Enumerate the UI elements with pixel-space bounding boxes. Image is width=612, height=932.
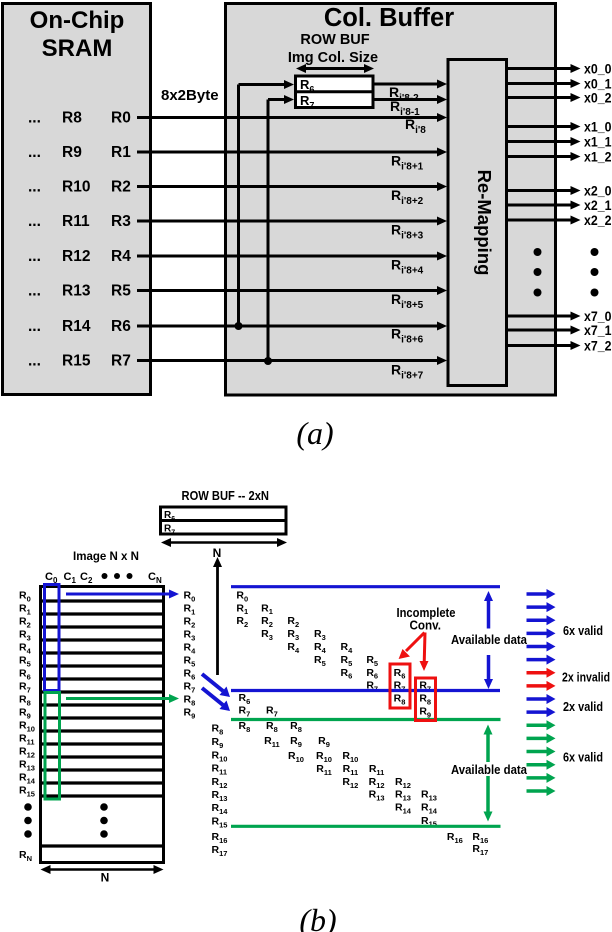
svg-text:R0: R0 [184,590,196,604]
caption (b) [299,902,336,932]
output data arrow 14 [527,760,556,770]
wire register output row2 [373,95,447,104]
SRAM row R2 labels [28,179,131,196]
net label Ri'8+2 [391,187,424,207]
buffer sequence label R8 [184,694,196,708]
SRAM row R7 labels [28,353,131,370]
caption (a) [296,415,333,451]
svg-text:R8: R8 [266,720,278,734]
wire R4 from SRAM to Re-Mapping [137,252,447,261]
svg-text:Re-Mapping: Re-Mapping [474,170,495,276]
label N under row buffer [213,546,222,560]
grid row label R12 [19,746,35,760]
svg-text:R2: R2 [19,616,31,630]
register box R6/R7 row buffer [296,76,374,111]
green arrow row R8 to label [66,694,179,703]
svg-text:x1_2: x1_2 [584,149,612,165]
label Image N x N [73,549,139,563]
output wire x2_1 [507,197,612,213]
red arrow to box 2 [420,633,429,672]
wire R6 from SRAM to Re-Mapping [137,322,447,331]
blue diagonal arrow R7 [202,688,230,711]
grid ellipsis dots left [24,803,32,838]
SRAM row R5 labels [28,283,131,300]
blue boundary line bottom [231,689,500,692]
wire R7 from SRAM to Re-Mapping [137,356,447,365]
svg-text:R2: R2 [184,616,196,630]
image grid N x N [41,587,164,863]
svg-text:x2_1: x2_1 [584,197,612,213]
svg-text:R10: R10 [288,750,304,764]
grid row label R9 [19,707,31,721]
svg-text:R5: R5 [19,655,31,669]
svg-text:R6: R6 [19,668,31,682]
wire R1 from SRAM to Re-Mapping [137,148,447,157]
output data arrow 9 [527,694,556,704]
output data arrow 3 [527,615,556,625]
output wire x7_1 [507,322,612,338]
svg-text:R7: R7 [266,705,278,719]
double arrow N width of row buffer [161,538,287,547]
svg-text:R2: R2 [287,615,299,629]
header ellipsis dots [102,573,133,579]
output data arrow 6 [527,655,556,665]
second sequence label R17 [212,844,228,858]
junction dot R7 [264,357,272,365]
svg-text:R14: R14 [395,802,412,816]
svg-text:R14: R14 [421,802,438,816]
blue double arrow available data [484,591,493,689]
svg-text:R14: R14 [62,318,91,335]
label 6x valid upper [563,623,603,638]
upper convolution staircase labels [236,589,431,719]
svg-text:6x valid: 6x valid [563,750,603,765]
svg-text:R1: R1 [19,603,31,617]
buffer sequence label R5 [184,655,196,669]
svg-text:...: ... [28,283,41,300]
svg-text:R8: R8 [62,110,82,127]
svg-text:R17: R17 [212,844,228,858]
svg-text:On-Chip: On-Chip [30,7,125,34]
row buffer box 2xN [161,507,287,536]
output data arrow 8 [527,681,556,691]
buffer sequence label R1 [184,603,196,617]
net label Ri'8-1 [390,98,420,118]
output wire x7_0 [507,308,612,324]
svg-text:(b): (b) [299,902,336,932]
label N under grid [101,871,110,885]
svg-text:R11: R11 [19,733,35,747]
output wire x2_2 [507,212,612,228]
svg-text:R8: R8 [19,694,31,708]
svg-text:...: ... [28,110,41,127]
buffer sequence label R0 [184,590,196,604]
svg-text:R13: R13 [395,789,411,803]
net label Ri'8 [405,116,426,136]
SRAM row R0 labels [28,110,131,127]
svg-text:R6: R6 [341,667,353,681]
output data arrow 13 [527,747,556,757]
black arrow up to row buffer [213,557,222,675]
second sequence label R16 [212,831,228,845]
svg-text:R12: R12 [212,776,228,790]
blue diagonal arrow R6 [202,674,230,697]
net label Ri'8+5 [391,291,424,311]
label ROW BUF--2xN [182,489,270,503]
svg-text:R11: R11 [62,213,90,230]
svg-text:R3: R3 [287,628,299,642]
buffer sequence label R2 [184,616,196,630]
grid row label R2 [19,616,31,630]
output data arrow 4 [527,628,556,638]
grid row label R0 [19,590,31,604]
svg-text:R10: R10 [342,750,358,764]
svg-text:R1: R1 [184,603,196,617]
box Re-Mapping [448,60,507,386]
svg-text:C1: C1 [64,571,77,585]
SRAM row R1 labels [28,144,131,161]
svg-text:N: N [101,871,110,885]
grid row label R7 [19,681,31,695]
output wire x0_1 [507,76,612,92]
net label Ri'8+1 [391,153,424,173]
svg-text:R13: R13 [421,789,437,803]
svg-text:Img Col. Size: Img Col. Size [288,50,378,66]
svg-text:R5: R5 [184,655,196,669]
svg-text:x0_0: x0_0 [584,61,612,77]
net label Ri'8+3 [391,222,424,242]
svg-text:R1: R1 [111,144,131,161]
svg-text:CN: CN [148,571,162,585]
svg-text:R3: R3 [19,629,31,643]
svg-text:R16: R16 [212,831,228,845]
grid row label R14 [19,772,36,786]
output data arrow 12 [527,733,556,743]
svg-text:x0_2: x0_2 [584,90,612,106]
svg-text:R7: R7 [239,705,251,719]
output data arrow 15 [527,773,556,783]
svg-text:R11: R11 [264,735,280,749]
svg-text:R4: R4 [19,642,32,656]
green double arrow available data [484,725,493,822]
svg-text:R10: R10 [62,179,90,196]
svg-text:R9: R9 [19,707,31,721]
svg-text:ROW BUF: ROW BUF [300,32,369,48]
output wire x7_2 [507,338,612,354]
svg-text:R5: R5 [314,654,326,668]
svg-text:R9: R9 [419,706,431,720]
blue column highlight C0 rows R0-R7 [45,585,60,691]
output data arrow 11 [527,720,556,730]
wire R7 branch up to register [268,95,294,361]
net label Ri'8+4 [391,257,424,277]
svg-text:R2: R2 [261,615,273,629]
svg-text:R10: R10 [212,750,228,764]
SRAM row R6 labels [28,318,131,335]
svg-text:R14: R14 [19,772,36,786]
green boundary line top [231,718,501,721]
label Available data lower [451,763,528,777]
grid row label R6 [19,668,31,682]
lower convolution staircase labels [239,692,489,857]
svg-text:...: ... [28,318,41,335]
svg-text:R9: R9 [318,735,330,749]
svg-text:C0: C0 [45,571,58,585]
label Available data upper [451,633,528,647]
svg-text:R14: R14 [212,802,229,816]
svg-text:R9: R9 [184,707,196,721]
svg-text:R10: R10 [19,720,35,734]
svg-text:R8: R8 [394,693,406,707]
column headers C0 C1 C2 [45,571,93,585]
svg-text:R4: R4 [111,248,131,265]
second sequence label R13 [212,789,228,803]
svg-text:R15: R15 [19,785,35,799]
svg-text:...: ... [28,179,41,196]
svg-text:R13: R13 [19,759,35,773]
svg-text:R16: R16 [447,831,463,845]
svg-text:R1: R1 [236,602,248,616]
svg-text:R17: R17 [472,843,488,857]
label Img Col. Size [288,50,378,66]
grid row label R8 [19,694,31,708]
svg-text:N: N [213,546,222,560]
svg-text:R4: R4 [314,641,327,655]
svg-text:R8: R8 [184,694,196,708]
grid row label RN [19,849,32,863]
svg-text:R15: R15 [212,816,228,830]
grid row label R11 [19,733,35,747]
ellipsis dots outputs inner [534,248,542,297]
green boundary line bottom [231,825,501,828]
wire R0 from SRAM to Re-Mapping [137,113,447,122]
svg-text:8x2Byte: 8x2Byte [161,87,219,104]
svg-text:R4: R4 [287,641,300,655]
svg-text:SRAM: SRAM [42,35,113,62]
svg-text:R12: R12 [342,776,358,790]
box On-Chip SRAM [3,4,151,395]
svg-text:2x invalid: 2x invalid [562,670,610,685]
wire R5 from SRAM to Re-Mapping [137,286,447,295]
svg-text:R15: R15 [62,353,91,370]
output data arrow 10 [527,707,556,717]
svg-text:ROW BUF -- 2xN: ROW BUF -- 2xN [182,489,270,503]
net label Ri'8+6 [391,326,424,346]
svg-text:R4: R4 [341,641,354,655]
junction dot R6 [235,322,243,330]
svg-text:Image N x N: Image N x N [73,549,139,563]
output data arrow 2 [527,602,556,612]
output wire x0_2 [507,90,612,106]
svg-text:R5: R5 [366,654,378,668]
svg-text:x2_2: x2_2 [584,212,612,228]
column header CN [148,571,162,585]
double arrow N width of grid [41,865,164,874]
svg-text:R11: R11 [369,763,385,777]
second sequence label R8 [212,723,224,737]
svg-text:R7: R7 [19,681,31,695]
svg-text:2x valid: 2x valid [563,699,603,714]
svg-text:R0: R0 [19,590,31,604]
grid row label R5 [19,655,31,669]
double arrow Img Col. Size width [296,64,374,73]
svg-text:R0: R0 [111,110,131,127]
grid row label R3 [19,629,31,643]
svg-text:Available data: Available data [451,763,528,777]
red box incomplete conv 1 [390,664,410,708]
svg-text:R11: R11 [212,763,228,777]
svg-text:x7_1: x7_1 [584,322,612,338]
svg-text:R10: R10 [316,750,332,764]
box Col. Buffer [226,4,556,396]
svg-text:...: ... [28,248,41,265]
buffer sequence label R4 [184,642,197,656]
svg-text:R3: R3 [111,213,131,230]
svg-text:R8: R8 [239,720,251,734]
svg-text:R3: R3 [314,628,326,642]
output wire x0_0 [507,61,612,77]
net label Ri'8-2 [389,84,419,104]
svg-text:x7_2: x7_2 [584,338,612,354]
svg-text:R2: R2 [236,615,248,629]
svg-text:...: ... [28,144,41,161]
svg-text:6x valid: 6x valid [563,623,603,638]
buffer sequence label R9 [184,707,196,721]
ellipsis dots outputs outer [591,248,599,297]
blue boundary line top [231,585,500,588]
grid row label R1 [19,603,31,617]
svg-text:R9: R9 [212,736,224,750]
svg-text:R6: R6 [111,318,131,335]
svg-text:Conv.: Conv. [410,619,442,633]
buffer sequence label R3 [184,629,196,643]
svg-text:R12: R12 [62,248,90,265]
grid row label R15 [19,785,35,799]
output wire x1_1 [507,134,612,150]
label Incomplete Conv. [397,606,456,633]
svg-text:R11: R11 [316,763,332,777]
label 6x valid lower [563,750,603,765]
grid row label R4 [19,642,32,656]
svg-text:R5: R5 [111,283,131,300]
second sequence label R9 [212,736,224,750]
svg-text:RN: RN [19,849,32,863]
svg-text:R8: R8 [212,723,224,737]
wire R3 from SRAM to Re-Mapping [137,217,447,226]
svg-text:R8: R8 [419,693,431,707]
svg-text:R3: R3 [261,628,273,642]
svg-text:R2: R2 [111,179,131,196]
wire R6 branch up to register [239,80,295,326]
svg-text:R6: R6 [366,667,378,681]
label 2x valid [563,699,603,714]
buffer sequence label R6 [184,668,196,682]
svg-text:R6: R6 [184,668,196,682]
red box incomplete conv 2 [416,678,436,721]
second sequence label R14 [212,802,229,816]
svg-text:R8: R8 [290,720,302,734]
red arrow to box 1 [399,633,425,660]
svg-text:R3: R3 [184,629,196,643]
label 8x2Byte [161,87,219,104]
second sequence label R12 [212,776,228,790]
svg-text:R9: R9 [290,735,302,749]
svg-text:R9: R9 [62,144,82,161]
blue arrow row R0 to label [66,590,179,599]
SRAM row R4 labels [28,248,131,265]
svg-text:C2: C2 [80,571,93,585]
svg-text:...: ... [28,353,41,370]
svg-text:R1: R1 [261,602,273,616]
output wire x1_2 [507,149,612,165]
SRAM row R3 labels [28,213,131,230]
svg-text:Available data: Available data [451,633,528,647]
wire register output row1 [373,80,447,89]
svg-text:R7: R7 [184,681,196,695]
grid row label R10 [19,720,35,734]
svg-text:R5: R5 [341,654,353,668]
second sequence label R11 [212,763,228,777]
buffer sequence label R7 [184,681,196,695]
svg-text:R13: R13 [369,789,385,803]
grid ellipsis dots inner [100,803,108,838]
svg-text:R12: R12 [19,746,35,760]
svg-text:...: ... [28,213,41,230]
label 2x invalid [562,670,610,685]
grid row label R13 [19,759,35,773]
svg-text:x1_0: x1_0 [584,119,612,135]
output data arrow 7 [527,668,556,678]
output data arrow 1 [527,589,556,599]
output data arrow 5 [527,642,556,652]
svg-text:R13: R13 [212,789,228,803]
svg-text:Col. Buffer: Col. Buffer [324,4,454,32]
wire R2 from SRAM to Re-Mapping [137,182,447,191]
svg-text:R0: R0 [236,589,248,603]
output wire x1_0 [507,119,612,135]
svg-text:R11: R11 [343,763,359,777]
svg-text:R4: R4 [184,642,197,656]
net label Ri'8+7 [391,362,424,382]
svg-text:R7: R7 [111,353,131,370]
second sequence label R10 [212,750,228,764]
svg-text:R6: R6 [394,667,406,681]
svg-text:(a): (a) [296,415,333,451]
output data arrow 16 [527,786,556,796]
svg-text:x1_1: x1_1 [584,134,612,150]
svg-text:R13: R13 [62,283,91,300]
output wire x2_0 [507,183,612,199]
label ROW BUF [300,32,369,48]
green column highlight C0 rows R8-R15 [45,693,60,800]
second sequence label R15 [212,816,228,830]
